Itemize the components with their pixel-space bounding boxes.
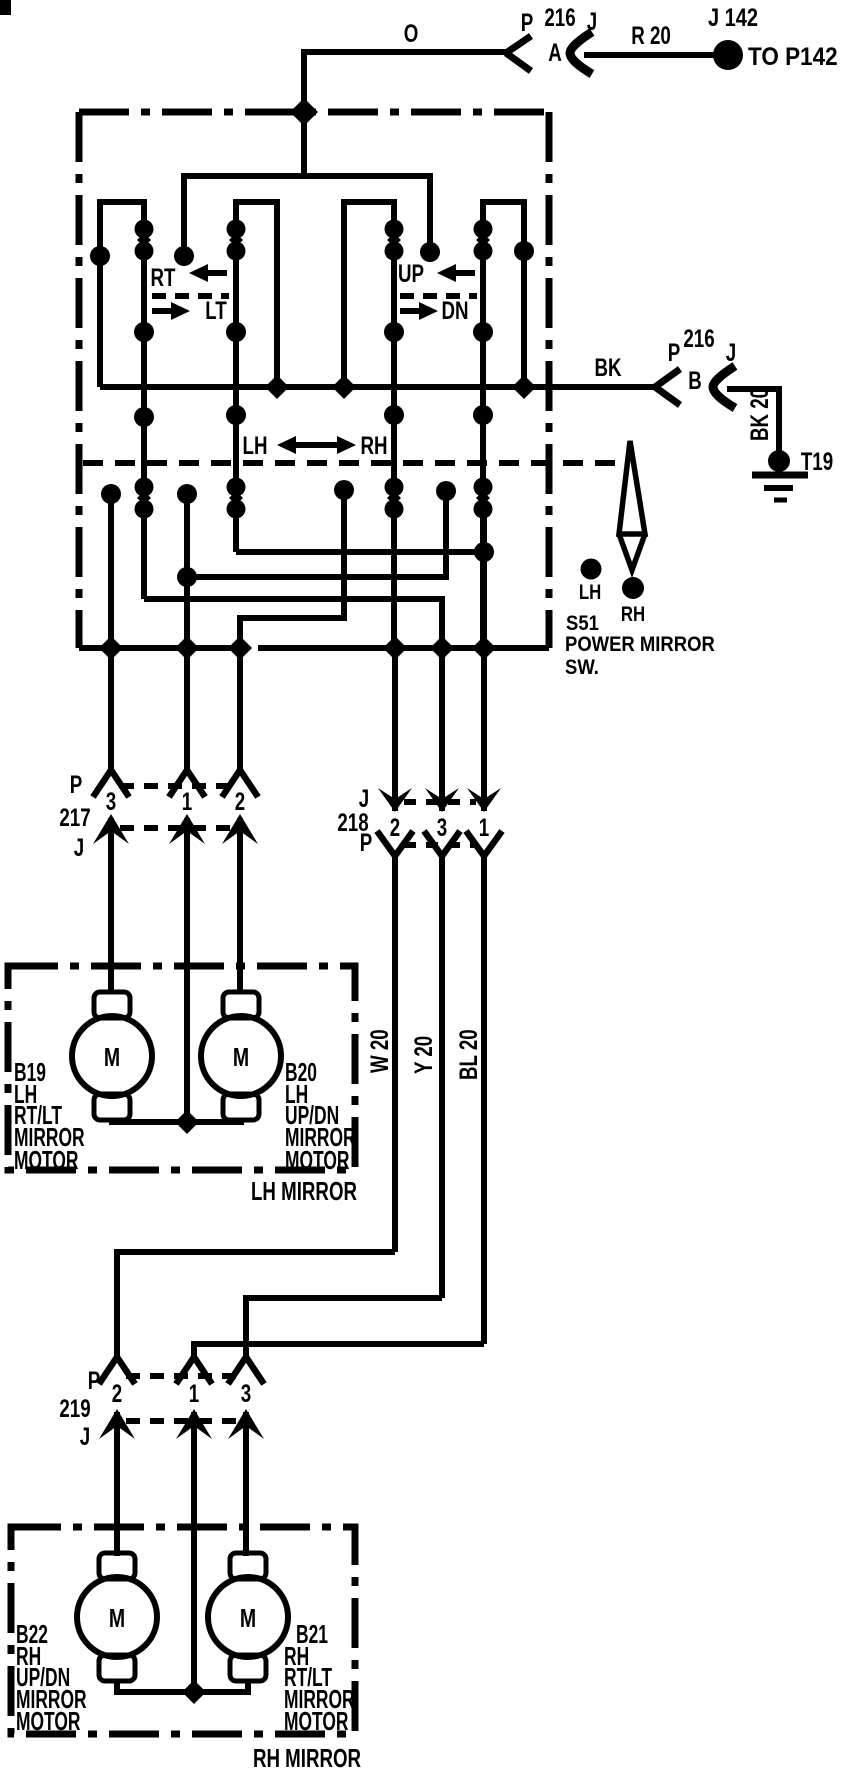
svg-text:RH: RH [621, 603, 645, 626]
svg-text:UP: UP [398, 259, 424, 287]
wiper feed bus [184, 176, 430, 256]
wire Y20 jog to 219 pin3 [246, 1298, 442, 1357]
svg-text:DN: DN [441, 296, 468, 324]
svg-text:Y 20: Y 20 [409, 1036, 437, 1074]
wire O (top feed) [304, 52, 506, 176]
wiper feed dot right [420, 242, 440, 262]
svg-text:BL 20: BL 20 [454, 1029, 482, 1080]
contact dot leg 236 mid [226, 322, 246, 342]
switch bottom bus left [79, 645, 247, 651]
svg-text:P: P [521, 8, 534, 36]
S51 switch box border top [79, 109, 549, 116]
RH mirror box border [11, 1527, 355, 1734]
wire W20 jog to 219 pin2 [117, 1252, 395, 1357]
RT arrow [189, 264, 227, 282]
LH-RH double arrow [277, 436, 356, 454]
svg-text:216: 216 [544, 3, 575, 31]
svg-text:R 20: R 20 [631, 21, 671, 49]
UP/DN switch staple 1 [344, 202, 394, 648]
LH motors common wire [112, 1120, 241, 1122]
LH mirror box border [8, 966, 355, 1170]
svg-text:J: J [80, 1422, 90, 1450]
contact pair on leg 394 upper [385, 220, 404, 261]
svg-text:MOTOR: MOTOR [14, 1146, 78, 1175]
svg-text:LH MIRROR: LH MIRROR [251, 1176, 357, 1206]
contact dot leg 236 lower [226, 405, 246, 425]
svg-text:2: 2 [112, 1379, 122, 1407]
svg-text:2: 2 [235, 787, 245, 815]
svg-text:TO P142: TO P142 [748, 43, 838, 71]
svg-text:RH: RH [360, 431, 387, 459]
contact pair on leg 236 upper [227, 220, 246, 261]
junction dot bottom x484 [472, 636, 496, 660]
wire BK 20 [727, 389, 779, 452]
wires 218 to connector 219 [392, 856, 398, 1252]
svg-text:SW.: SW. [565, 656, 599, 679]
switch bottom border dashes [258, 645, 549, 651]
connector 217 J arrows [93, 814, 258, 844]
motor B22 [77, 1553, 157, 1681]
svg-text:BK 20: BK 20 [745, 388, 773, 441]
svg-text:W 20: W 20 [365, 1029, 393, 1073]
junction at top border [290, 98, 318, 126]
S51 switch box border left [76, 112, 83, 648]
motor B20 [201, 992, 281, 1120]
svg-text:P: P [70, 770, 83, 798]
LH position dot [581, 559, 602, 580]
LT arrow [152, 302, 190, 320]
svg-text:MOTOR: MOTOR [285, 1146, 349, 1175]
UP arrow [437, 264, 475, 282]
wire H-B to stem [187, 481, 456, 577]
connector 219 J arrows [99, 1409, 264, 1439]
UP/DN dashed divider [400, 293, 477, 299]
contact dot on leg 100 [90, 246, 110, 266]
junction dot bottom x442 [430, 636, 454, 660]
motor B19 [72, 992, 152, 1120]
connector arrow (J side, right) [713, 366, 735, 408]
svg-text:1: 1 [189, 1379, 199, 1407]
wires 219 to RH mirror motors [114, 1412, 120, 1556]
junction dot LH motors [175, 1110, 199, 1134]
selector stem pin3 (left) [101, 484, 121, 648]
selector dashed line [83, 460, 617, 466]
junction dot bottom x111 [99, 636, 123, 660]
svg-text:LH: LH [243, 431, 268, 459]
connector 217 dashes J row [120, 825, 232, 831]
RH position dot [622, 577, 644, 599]
connector 219 P forks [99, 1357, 135, 1384]
svg-text:MOTOR: MOTOR [16, 1707, 80, 1736]
svg-text:3: 3 [437, 813, 447, 841]
wire R 20 [584, 52, 716, 58]
selector contact pair leg 236 [227, 478, 246, 519]
svg-text:P: P [668, 338, 681, 366]
connector 218 P forks [377, 831, 413, 856]
wiper feed dot left [174, 246, 194, 266]
junction dot RH motors [182, 1680, 206, 1704]
svg-text:P: P [88, 1366, 101, 1394]
wire leg 484 lower [481, 509, 487, 648]
ground T19 [752, 450, 808, 500]
RH motors common wire [117, 1681, 248, 1692]
selector contact pair leg 144 [135, 478, 154, 519]
svg-text:219: 219 [59, 1394, 90, 1422]
svg-text:RH MIRROR: RH MIRROR [253, 1743, 361, 1768]
svg-text:M: M [233, 1042, 249, 1071]
connector 218 dashes P row [404, 842, 476, 848]
S51 switch box border right [546, 112, 553, 648]
RT/LT dashed divider [152, 293, 229, 299]
svg-text:1: 1 [182, 787, 192, 815]
connector 219 dashes P row [126, 1373, 238, 1379]
junction dot bottom x240 [228, 636, 252, 660]
selector pointer [619, 441, 645, 570]
wire H3 crossover [144, 599, 442, 648]
contact dot leg 144 lower [134, 407, 154, 427]
splice J142 [713, 40, 743, 70]
svg-text:2: 2 [390, 813, 400, 841]
contact pair on leg 144 upper [135, 220, 154, 261]
connector 217 dashes P row [120, 783, 232, 789]
svg-text:A: A [548, 38, 562, 66]
connector 219 dashes J row [126, 1418, 238, 1424]
svg-text:M: M [240, 1603, 256, 1632]
contact dot leg 394 lower [384, 405, 404, 425]
contact dot leg 483 mid [473, 322, 493, 342]
svg-text:216: 216 [683, 324, 714, 352]
contact dot leg 483 lower [473, 405, 493, 425]
svg-text:S51: S51 [566, 612, 599, 635]
connector P216 pin A fork [506, 36, 531, 71]
connector 217 P forks [93, 770, 129, 797]
RT/LT switch staple 1 [100, 202, 144, 599]
selector contact pair leg 483 [474, 478, 493, 519]
wires 217 to LH mirror motors [108, 818, 114, 994]
svg-text:T19: T19 [801, 447, 833, 475]
svg-text:P: P [360, 828, 373, 856]
svg-text:217: 217 [59, 803, 90, 831]
svg-text:RT: RT [151, 263, 176, 291]
UP/DN switch staple 2 [483, 202, 524, 648]
svg-text:B: B [688, 366, 702, 394]
svg-text:LH: LH [579, 581, 601, 604]
svg-text:M: M [104, 1042, 120, 1071]
junction dot bus x524 [512, 375, 536, 399]
contact dot leg 394 mid [384, 322, 404, 342]
scan corner mark [0, 0, 11, 15]
wires to connector 217 [108, 648, 114, 770]
contact pair on leg 483 upper [474, 220, 493, 261]
svg-text:3: 3 [241, 1379, 251, 1407]
switch common bus BK [100, 384, 655, 390]
junction dot bottom x395 [383, 636, 407, 660]
svg-text:O: O [404, 19, 419, 47]
junction dot bus x344 [332, 375, 356, 399]
connector 218 J arrows (down) [378, 788, 501, 812]
svg-text:BK: BK [594, 353, 621, 381]
svg-text:J 142: J 142 [708, 4, 758, 32]
svg-text:LT: LT [205, 296, 227, 324]
motor B21 [208, 1553, 288, 1681]
junction dot bottom x187 [175, 636, 199, 660]
svg-text:POWER MIRROR: POWER MIRROR [565, 633, 715, 656]
svg-text:3: 3 [106, 787, 116, 815]
selector stem RH (right) [240, 480, 354, 648]
junction dot H-B start [177, 567, 197, 587]
svg-text:M: M [109, 1603, 125, 1632]
contact dot leg 144 mid [134, 322, 154, 342]
wire H-A crossover [236, 549, 484, 555]
connector P216 pin B fork [655, 369, 680, 405]
DN arrow [400, 302, 438, 320]
selector stem pin1 (left) [177, 484, 197, 648]
wire BL20 jog to 219 pin1 [194, 1344, 484, 1357]
connector 218 dashes J row [404, 799, 476, 805]
selector contact pair leg 394 [385, 478, 404, 519]
svg-text:MOTOR: MOTOR [284, 1707, 348, 1736]
junction dot H-A end [474, 542, 494, 562]
junction dot bus x277 [265, 375, 289, 399]
wires to connector 218 [392, 648, 398, 811]
connector arrow (J side, top) [570, 32, 592, 74]
svg-text:1: 1 [479, 813, 489, 841]
RT/LT switch staple 2 [236, 202, 277, 552]
contact dot on leg 524 [514, 241, 534, 261]
svg-text:J: J [74, 833, 84, 861]
svg-text:J: J [726, 338, 736, 366]
